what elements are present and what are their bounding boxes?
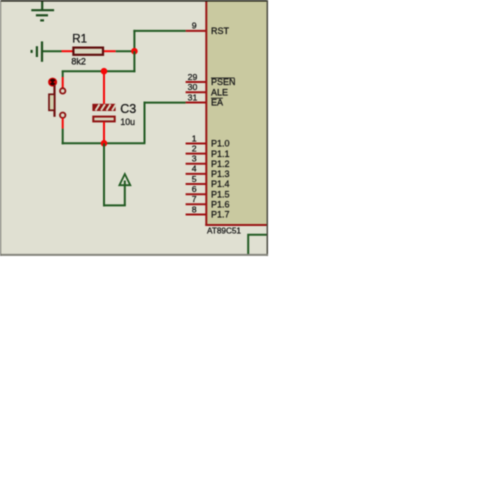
svg-text:29: 29 — [188, 72, 198, 82]
wire EA riser — [144, 102, 146, 144]
capacitor C3 top lead — [103, 71, 105, 104]
svg-text:P1.1: P1.1 — [211, 149, 230, 159]
junction dot C — [101, 140, 108, 147]
svg-text:8: 8 — [192, 204, 197, 214]
pin 1 P1.0 stub — [186, 143, 207, 145]
pin 3 P1.2 stub — [186, 163, 207, 165]
svg-text:31: 31 — [188, 92, 198, 102]
svg-text:10u: 10u — [120, 117, 135, 127]
svg-text:PSEN: PSEN — [211, 77, 236, 87]
capacitor C3 top plate (polarized, hatched) — [92, 104, 116, 111]
power stem — [124, 181, 126, 206]
junction dot A — [131, 48, 138, 55]
pin 5 P1.4 stub — [186, 183, 207, 185]
svg-text:4: 4 — [192, 164, 197, 174]
capacitor C3 bottom plate — [93, 117, 114, 122]
button contact bar — [53, 85, 55, 116]
svg-text:RST: RST — [211, 26, 230, 36]
wire bottom jog — [103, 204, 126, 206]
svg-text:7: 7 — [192, 194, 197, 204]
pin 29 PSEN stub — [186, 81, 207, 83]
R1 right pin — [104, 50, 116, 52]
ground (top) — [31, 0, 54, 20]
pin 6 P1.5 stub — [186, 193, 207, 195]
svg-text:ALE: ALE — [211, 87, 228, 97]
wire to EA pin — [144, 102, 186, 104]
resistor R1 body — [73, 48, 103, 55]
svg-text:5: 5 — [192, 174, 197, 184]
svg-text:9: 9 — [192, 21, 197, 31]
svg-text:R1: R1 — [72, 34, 87, 46]
svg-text:2: 2 — [192, 143, 197, 153]
svg-text:1: 1 — [192, 133, 197, 143]
wire bottom-right corner net — [248, 235, 267, 255]
button top pin — [62, 71, 64, 77]
svg-text:P1.0: P1.0 — [211, 139, 230, 149]
pin 2 P1.1 stub — [186, 153, 207, 155]
button actuator box — [49, 94, 55, 110]
wire button to bottom rail — [62, 129, 64, 145]
sheet background — [0, 0, 268, 256]
svg-text:AT89C51: AT89C51 — [207, 227, 241, 236]
wire ground to R1 — [43, 50, 62, 52]
button top terminal — [60, 88, 65, 93]
pin 31 EA stub — [186, 102, 207, 104]
pin name EA (overline) — [211, 98, 223, 108]
svg-text:P1.2: P1.2 — [211, 159, 230, 169]
button SW red actuator ball — [49, 78, 57, 86]
power arrow head — [119, 174, 130, 185]
wire junction C down — [103, 143, 105, 206]
svg-text:30: 30 — [188, 82, 198, 92]
pin 30 ALE stub — [186, 91, 207, 93]
mcu U1 body AT89C51 — [205, 1, 267, 226]
pin name PSEN (overline) — [211, 77, 236, 87]
svg-text:C3: C3 — [120, 102, 136, 116]
svg-text:EA: EA — [211, 98, 223, 108]
svg-text:3: 3 — [192, 154, 197, 164]
svg-text:P1.4: P1.4 — [211, 179, 230, 189]
capacitor C3 bottom lead — [103, 122, 105, 143]
pin 9 RST stub — [186, 30, 207, 32]
wire corner to RST pin — [133, 30, 185, 32]
svg-text:P1.6: P1.6 — [211, 200, 230, 210]
wire junction up to RST corner — [133, 30, 135, 52]
svg-text:P1.3: P1.3 — [211, 169, 230, 179]
svg-text:6: 6 — [192, 184, 197, 194]
svg-text:P1.5: P1.5 — [211, 189, 230, 199]
pin 8 P1.7 stub — [186, 214, 207, 216]
R1 left pin — [62, 50, 73, 52]
svg-text:8k2: 8k2 — [71, 57, 86, 67]
bottom rail wire — [62, 142, 146, 144]
button bottom terminal — [60, 113, 65, 118]
ground (left, rotated) — [32, 41, 42, 61]
sheet border frame — [0, 0, 268, 256]
wire R1 to junction — [116, 50, 135, 52]
junction dot B — [101, 68, 108, 75]
svg-text:P1.7: P1.7 — [211, 210, 230, 220]
mid rail wire — [62, 70, 136, 72]
pin 7 P1.6 stub — [186, 203, 207, 205]
button bottom pin — [62, 118, 64, 129]
pin 4 P1.3 stub — [186, 173, 207, 175]
wire junction down to mid rail — [133, 51, 135, 72]
